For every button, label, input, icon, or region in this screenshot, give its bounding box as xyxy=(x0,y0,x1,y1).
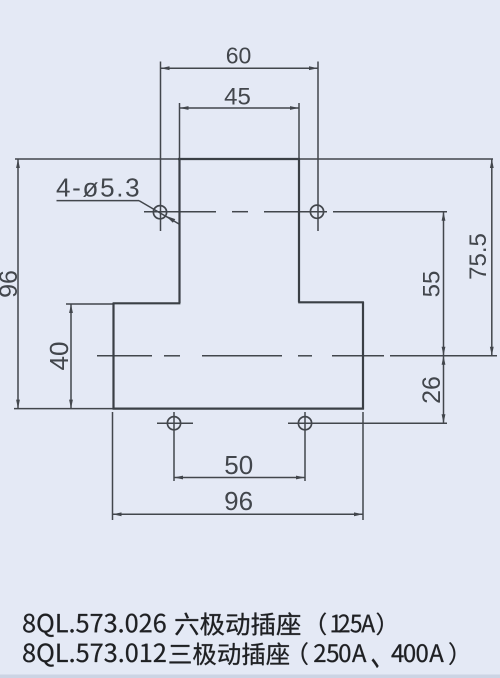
svg-text:55: 55 xyxy=(419,271,446,298)
svg-text:50: 50 xyxy=(224,450,253,480)
svg-text:75.5: 75.5 xyxy=(465,233,492,280)
svg-text:96: 96 xyxy=(0,270,23,298)
svg-text:4-ø5.3: 4-ø5.3 xyxy=(56,173,141,203)
svg-text:26: 26 xyxy=(418,376,446,404)
svg-text:40: 40 xyxy=(44,342,74,371)
svg-text:96: 96 xyxy=(224,486,253,516)
svg-text:60: 60 xyxy=(226,43,252,69)
svg-text:45: 45 xyxy=(224,84,251,111)
